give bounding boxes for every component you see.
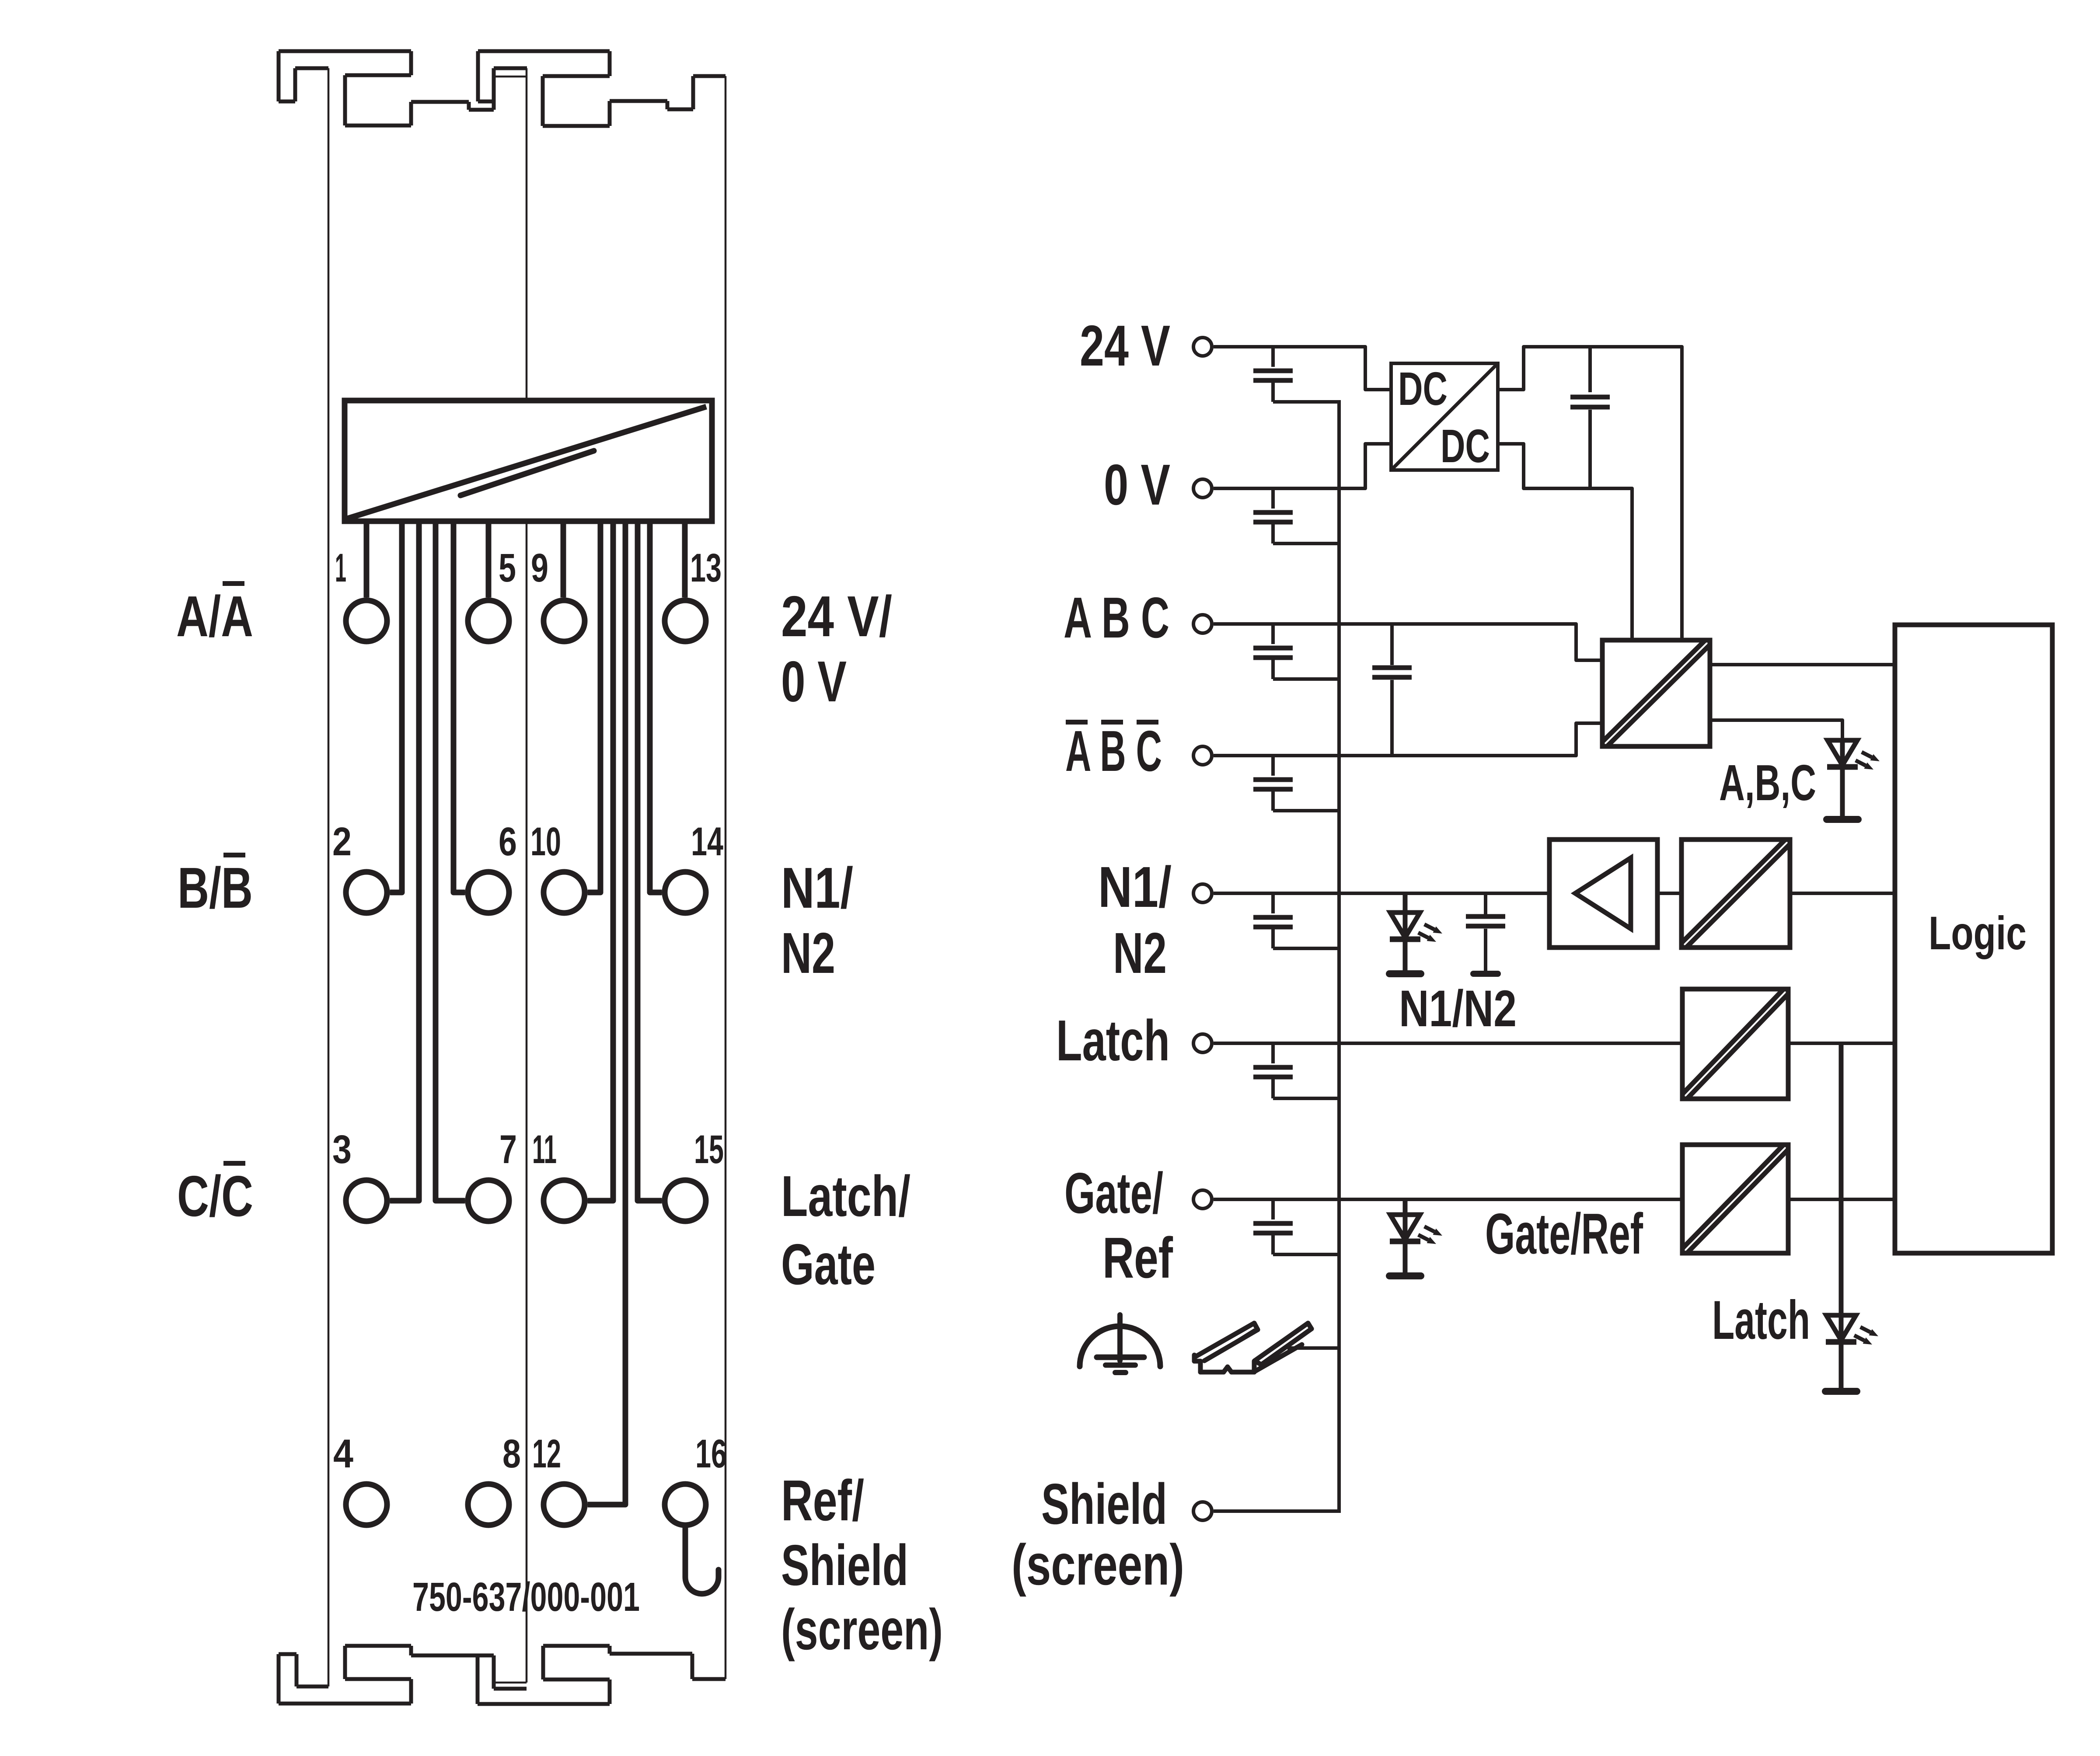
svg-text:Shield: Shield	[781, 1533, 908, 1597]
svg-text:N2: N2	[781, 921, 835, 985]
svg-text:6: 6	[499, 819, 517, 864]
svg-text:DC: DC	[1441, 419, 1490, 472]
svg-text:Gate: Gate	[781, 1232, 876, 1296]
svg-text:3: 3	[332, 1127, 352, 1172]
svg-text:750-637/000-001: 750-637/000-001	[412, 1574, 640, 1620]
svg-text:Ref/: Ref/	[781, 1468, 864, 1533]
svg-text:A/A: A/A	[176, 584, 253, 648]
svg-text:N2: N2	[1113, 921, 1167, 985]
svg-text:12: 12	[532, 1432, 561, 1476]
svg-text:15: 15	[694, 1127, 724, 1172]
svg-text:24 V: 24 V	[1080, 314, 1170, 378]
svg-text:Gate/Ref: Gate/Ref	[1485, 1202, 1643, 1266]
svg-text:14: 14	[691, 819, 723, 864]
svg-text:1: 1	[335, 546, 346, 590]
svg-text:10: 10	[530, 819, 561, 864]
svg-text:24 V/: 24 V/	[781, 584, 892, 648]
svg-text:C/C: C/C	[177, 1164, 253, 1228]
svg-text:DC: DC	[1398, 362, 1448, 415]
svg-text:5: 5	[499, 546, 516, 590]
svg-text:0 V: 0 V	[1104, 453, 1170, 517]
svg-text:(screen): (screen)	[781, 1597, 943, 1662]
svg-text:N1/: N1/	[781, 856, 853, 920]
svg-text:13: 13	[690, 546, 722, 590]
svg-text:N1/: N1/	[1098, 855, 1172, 919]
svg-text:N1/N2: N1/N2	[1399, 980, 1517, 1038]
svg-text:7: 7	[499, 1127, 517, 1172]
svg-text:8: 8	[502, 1432, 521, 1476]
svg-text:0 V: 0 V	[781, 649, 847, 714]
svg-text:Ref: Ref	[1102, 1226, 1173, 1290]
svg-text:Latch: Latch	[1056, 1008, 1170, 1073]
svg-text:A,B,C: A,B,C	[1719, 754, 1816, 811]
svg-text:11: 11	[532, 1127, 557, 1172]
svg-text:9: 9	[531, 546, 548, 590]
svg-text:A B C: A B C	[1065, 719, 1162, 783]
svg-text:Gate/: Gate/	[1064, 1161, 1163, 1225]
svg-text:Logic: Logic	[1929, 906, 2027, 959]
svg-text:A B C: A B C	[1064, 585, 1169, 650]
svg-text:Shield: Shield	[1041, 1472, 1167, 1536]
svg-text:4: 4	[333, 1432, 353, 1476]
svg-text:2: 2	[332, 819, 352, 864]
svg-text:16: 16	[695, 1432, 727, 1476]
svg-text:B/B: B/B	[178, 856, 253, 920]
svg-text:(screen): (screen)	[1012, 1533, 1184, 1597]
svg-text:Latch/: Latch/	[781, 1164, 910, 1228]
svg-text:Latch: Latch	[1712, 1290, 1810, 1351]
